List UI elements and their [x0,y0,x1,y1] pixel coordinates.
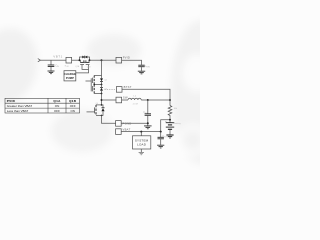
pin PGND [116,121,122,127]
wire Q4 to PGND pin [102,115,117,123]
svg-text:CHARGE: CHARGE [64,72,76,76]
ground (system load) [139,153,144,155]
svg-text:PVID: PVID [7,99,16,103]
svg-text:+: + [165,119,167,123]
ground (input cap) [48,71,55,74]
system load box [133,136,151,149]
ground (battery) [166,135,173,138]
svg-text:4.7uH: 4.7uH [133,104,139,106]
capacitor COUT [145,100,151,123]
wire to system load [140,132,142,136]
node PGND cap [147,122,149,124]
resistor RT thermistor [168,106,172,120]
svg-text:OFF: OFF [54,109,60,113]
pin PVID [116,57,122,63]
svg-text:Q1B: Q1B [69,99,77,103]
svg-text:ON: ON [55,104,60,108]
wire output node to thermistor column [148,99,170,101]
node battery top [169,119,171,121]
input terminal [38,59,41,62]
svg-text:VBT1: VBT1 [53,54,63,58]
resistor box R1 [66,57,72,63]
svg-text:Less than VBAT: Less than VBAT [7,109,29,113]
svg-text:Q1A: Q1A [53,99,61,103]
svg-text:OFF: OFF [70,104,76,108]
svg-text:BTST: BTST [124,85,132,89]
wire stack to BTST pin [105,89,117,91]
svg-text:PVID: PVID [123,56,130,60]
wire PGND pin to cap bottom [121,122,148,124]
wire VBAT route up [161,120,170,132]
svg-text:CSYS: CSYS [162,136,168,139]
transistor Q3 [93,85,103,95]
wire SW pin to inductor [122,99,128,101]
wire BTST to thermistor column [122,89,170,105]
node Q1 right [89,59,91,61]
node SW [101,99,103,101]
node Q1 left [79,59,81,61]
pin BTST [116,87,122,93]
svg-text:Q3: Q3 [104,89,107,91]
battery BT1 [166,120,174,135]
wire node to resistor box [51,59,66,61]
node PVID tap [101,59,103,61]
svg-text:SW: SW [123,96,128,100]
node output [147,99,149,101]
table [5,98,80,113]
wire rail to PVID pin [102,59,117,61]
node at thermistor column [169,99,171,101]
transistor Q1A/Q1B back-to-back pair [80,56,90,65]
wire stack to SW [101,94,103,105]
svg-text:Q4: Q4 [96,103,99,105]
capacitor CSYS [158,132,164,145]
svg-text:Q2: Q2 [104,80,107,82]
wire Q4 gate [87,111,95,113]
wire SW to pin [102,99,117,101]
ground (CSYS) [157,145,164,148]
node mid Q2/Q3 [93,84,102,86]
pin VBAT [116,129,122,135]
svg-text:CPVID: CPVID [144,66,150,69]
svg-text:Greater than VBAT: Greater than VBAT [7,104,32,108]
svg-text:1 battery: 1 battery [173,122,182,125]
wire rail Q1 to node [90,59,102,61]
ground (CPVID) [138,71,145,74]
wire input to node [40,59,51,61]
wire Q1A gate [82,65,89,70]
svg-text:VBAT: VBAT [123,128,131,132]
ground (PGND) [144,123,152,129]
wire VBAT [121,131,161,133]
capacitor CPVID [138,65,144,71]
pin SW [116,97,122,103]
svg-text:PUMP: PUMP [66,76,74,80]
charge pump U1 [64,71,76,81]
inductor L1 [128,98,141,100]
wire gate bus Q2/Q3 [86,78,92,91]
wire box to Q1 [72,59,80,61]
node system load tap [140,131,142,133]
node CSYS tap [160,131,162,133]
svg-text:ON: ON [70,109,75,113]
transistor Q2 [93,76,103,85]
wire inductor to node [141,99,148,101]
wire drain Q2 [101,60,103,75]
wire PVID pin to cap [122,60,142,65]
wire Q1B gate [76,65,89,73]
capacitor CIN [48,60,55,70]
svg-text:PGND: PGND [123,121,132,125]
wire system load to ground [140,149,142,152]
svg-text:LOAD: LOAD [137,143,147,147]
transistor Q4 BATFET [95,104,105,116]
